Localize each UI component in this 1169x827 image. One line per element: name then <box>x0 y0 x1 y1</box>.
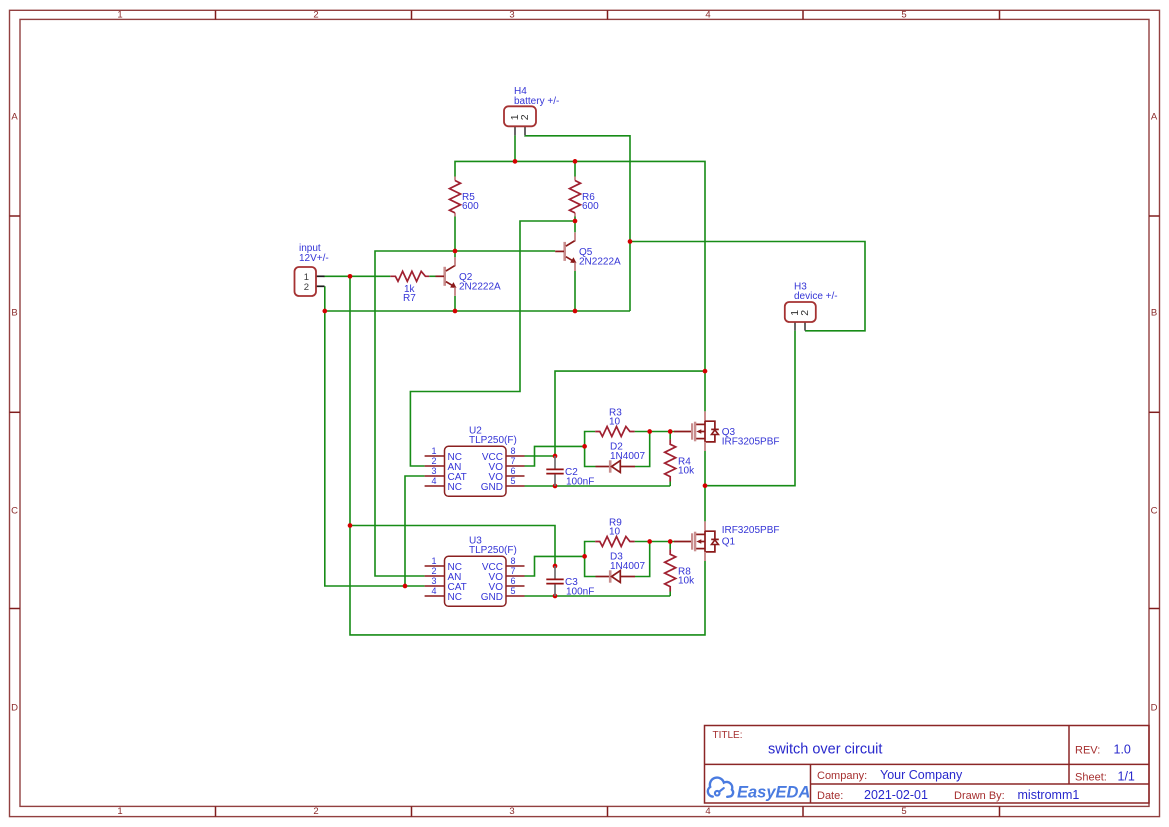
svg-text:GND: GND <box>481 592 503 603</box>
junction H4 pin1 / battery+ rail <box>513 159 518 164</box>
wire R8 top <box>669 542 671 550</box>
wire input pin1 to R7 <box>324 275 391 277</box>
svg-text:2N2222A: 2N2222A <box>459 282 501 293</box>
svg-text:8: 8 <box>510 446 515 456</box>
wire D2 right up to node <box>635 432 650 467</box>
resistor R7 1k <box>390 271 429 304</box>
svg-text:device +/-: device +/- <box>794 291 838 302</box>
svg-text:1/1: 1/1 <box>1118 769 1135 783</box>
wire U3 GND rail <box>525 595 671 597</box>
optocoupler U2 TLP250(F) <box>425 426 525 497</box>
transistor Q2 2N2222A <box>436 257 502 296</box>
junction input pin1 / R7 <box>348 274 353 279</box>
mosfet Q3 IRF3205PBF <box>674 411 780 451</box>
svg-text:GND: GND <box>481 482 503 493</box>
wire Q3 source <box>704 451 706 486</box>
junction U2 CAT / U3 CAT <box>403 584 408 589</box>
wire Q3 source node to H3 pin1 <box>705 331 795 486</box>
wire battery+ to U2 VCC <box>555 371 705 456</box>
svg-text:4: 4 <box>705 806 710 817</box>
svg-text:3: 3 <box>431 576 436 586</box>
junction R6 top / battery+ rail <box>573 159 578 164</box>
svg-text:7: 7 <box>510 566 515 576</box>
junction R3 right / D2 right node <box>647 429 652 434</box>
svg-text:TITLE:: TITLE: <box>713 730 743 741</box>
svg-text:1: 1 <box>431 446 436 456</box>
wire D3 right up to node <box>635 542 650 577</box>
capacitor C3 100nF <box>546 566 594 597</box>
svg-text:Company:: Company: <box>817 770 867 782</box>
wire R4 top <box>669 432 671 440</box>
svg-text:IRF3205PBF: IRF3205PBF <box>722 436 780 447</box>
svg-text:REV:: REV: <box>1075 745 1100 757</box>
wire input pin2 down <box>325 286 425 586</box>
junction U3 VCC / C3 top <box>553 564 558 569</box>
svg-text:R7: R7 <box>403 293 416 304</box>
junction U2 VCC / C2 top <box>553 454 558 459</box>
wire gnd rail y=311 <box>325 310 630 312</box>
svg-text:4: 4 <box>431 586 436 596</box>
svg-text:mistromm1: mistromm1 <box>1018 788 1080 802</box>
svg-text:2: 2 <box>431 456 436 466</box>
svg-text:2: 2 <box>799 310 811 316</box>
svg-text:12V+/-: 12V+/- <box>299 253 329 264</box>
connector input 12V+/- <box>295 243 329 296</box>
svg-text:2N2222A: 2N2222A <box>579 257 621 268</box>
svg-text:4: 4 <box>431 476 436 486</box>
svg-text:5: 5 <box>510 476 515 486</box>
svg-text:2: 2 <box>313 10 318 21</box>
junction Q2 collector / R5 bottom <box>453 249 458 254</box>
wire battery+ rail y=161 <box>455 161 705 411</box>
svg-text:Drawn By:: Drawn By: <box>954 790 1005 802</box>
wire Q5 collector node to U2 AN <box>410 221 575 466</box>
svg-text:Q1: Q1 <box>722 537 736 548</box>
svg-text:600: 600 <box>582 201 599 212</box>
junction U2 VO / R3-D2 left node <box>582 444 587 449</box>
junction U3 VO / R9-D3 left node <box>582 554 587 559</box>
junction Q3 source / Q1 drain / H3 pin1 <box>703 483 708 488</box>
wire R9 right to gate node <box>635 541 674 543</box>
svg-text:4: 4 <box>705 10 710 21</box>
wire R6 top <box>574 161 576 176</box>
junction battery+ / U2 VCC branch <box>703 369 708 374</box>
svg-text:2021-02-01: 2021-02-01 <box>864 788 928 802</box>
svg-text:600: 600 <box>462 201 479 212</box>
resistor R5 600 <box>450 177 480 217</box>
resistor R4 10k <box>665 439 695 481</box>
svg-text:1N4007: 1N4007 <box>610 561 645 572</box>
svg-text:1.0: 1.0 <box>1114 743 1131 757</box>
svg-text:3: 3 <box>509 806 514 817</box>
wire R6 bottom node <box>574 216 576 221</box>
wire R5 bottom to Q2 collector node <box>454 216 456 257</box>
svg-text:NC: NC <box>448 592 462 603</box>
svg-text:1N4007: 1N4007 <box>610 451 645 462</box>
connector H4 battery +/- <box>504 86 559 135</box>
svg-text:5: 5 <box>510 586 515 596</box>
wire U3 loop left node down to D3 <box>585 556 596 576</box>
junction Q2 emitter / gnd rail <box>453 309 458 314</box>
svg-text:2: 2 <box>304 282 309 293</box>
wire Q5 collector <box>574 221 576 232</box>
svg-text:2: 2 <box>519 114 531 120</box>
svg-text:8: 8 <box>510 556 515 566</box>
svg-text:TLP250(F): TLP250(F) <box>469 435 517 446</box>
resistor R8 10k <box>665 549 695 591</box>
resistor R3 10 <box>595 408 634 437</box>
junction input pin1 branch / U3 VCC <box>348 523 353 528</box>
wire U2 CAT to U3 CAT <box>405 476 425 586</box>
svg-text:1: 1 <box>117 806 122 817</box>
svg-text:D: D <box>11 703 18 714</box>
wire loop left node down to D2 <box>585 446 596 466</box>
junction R8 top / Q1 gate node <box>668 539 673 544</box>
junction Q5 emitter / gnd rail <box>573 309 578 314</box>
wire Q2 collector node to U3 AN <box>375 251 455 576</box>
svg-text:2: 2 <box>431 566 436 576</box>
wire R4 bottom <box>669 482 671 487</box>
junction R4 top / Q3 gate node <box>668 429 673 434</box>
resistor R6 600 <box>570 177 600 217</box>
EasyEDA logo <box>708 778 733 797</box>
svg-text:B: B <box>1151 308 1157 319</box>
svg-text:10: 10 <box>609 417 621 428</box>
svg-text:10k: 10k <box>678 576 695 587</box>
title block <box>705 726 1150 804</box>
wire U3 VO pin7 to loop <box>525 556 585 576</box>
wire Q2 collector node to Q5 base <box>455 250 555 252</box>
svg-text:C: C <box>1151 506 1158 517</box>
wire R7 to Q2 base <box>429 275 435 277</box>
junction H4 pin2 / H3 pin2 / gnd rail <box>628 239 633 244</box>
wire Q5 emitter to rail <box>574 271 576 311</box>
wire R8 bottom <box>669 592 671 597</box>
svg-text:6: 6 <box>510 466 515 476</box>
svg-text:3: 3 <box>509 10 514 21</box>
optocoupler U3 TLP250(F) <box>425 536 525 607</box>
svg-text:5: 5 <box>901 806 906 817</box>
svg-text:D: D <box>1151 703 1158 714</box>
svg-text:100nF: 100nF <box>566 476 594 487</box>
wire node down to gnd rail <box>629 242 631 312</box>
wire Q2 emitter to rail <box>454 296 456 311</box>
junction Q5 collector / R6 bottom <box>573 219 578 224</box>
wire H4 pin2 to node <box>525 136 630 242</box>
diode D3 1N4007 <box>596 551 646 582</box>
wire R3 right to gate node <box>635 431 674 433</box>
svg-text:10k: 10k <box>678 466 695 477</box>
svg-text:Your Company: Your Company <box>880 768 963 782</box>
junction R9 right / D3 right node <box>647 539 652 544</box>
transistor Q5 2N2222A <box>555 232 621 271</box>
mosfet Q1 IRF3205PBF <box>674 521 780 561</box>
svg-text:3: 3 <box>431 466 436 476</box>
svg-text:A: A <box>1151 112 1158 123</box>
svg-text:IRF3205PBF: IRF3205PBF <box>722 525 780 536</box>
svg-text:battery +/-: battery +/- <box>514 96 559 107</box>
svg-text:EasyEDA: EasyEDA <box>737 784 810 802</box>
svg-text:100nF: 100nF <box>566 586 594 597</box>
svg-text:1: 1 <box>117 10 122 21</box>
connector H3 device +/- <box>785 282 838 331</box>
svg-text:B: B <box>11 308 17 319</box>
svg-text:1: 1 <box>431 556 436 566</box>
svg-text:TLP250(F): TLP250(F) <box>469 545 517 556</box>
svg-text:10: 10 <box>609 527 621 538</box>
junction input pin2 / gnd rail <box>322 309 327 314</box>
svg-text:NC: NC <box>448 482 462 493</box>
wire H4 pin1 to rail <box>514 135 516 161</box>
wire U2 GND rail <box>525 485 671 487</box>
wire U2 VCC pin <box>525 455 556 457</box>
wire U2 VO pin7 to loop <box>525 446 585 466</box>
svg-text:C: C <box>11 506 18 517</box>
svg-text:6: 6 <box>510 576 515 586</box>
wire Q3 source node to Q1 drain <box>704 486 706 522</box>
svg-text:Date:: Date: <box>817 790 843 802</box>
svg-text:Sheet:: Sheet: <box>1075 771 1107 783</box>
wire input pin1 down <box>350 276 705 635</box>
resistor R9 10 <box>595 518 634 547</box>
svg-text:2: 2 <box>313 806 318 817</box>
junction C3 bottom / U3 GND <box>553 594 558 599</box>
wire node to H3 pin2 <box>630 242 865 331</box>
junction C2 bottom / U2 GND <box>553 484 558 489</box>
wire loop left node up to R3 <box>585 432 596 447</box>
svg-text:A: A <box>11 112 18 123</box>
wire U3 loop left node up to R9 <box>585 542 596 557</box>
capacitor C2 100nF <box>546 456 594 487</box>
diode D2 1N4007 <box>596 441 646 472</box>
wire to U3 VCC <box>350 526 555 567</box>
svg-text:switch over circuit: switch over circuit <box>768 742 882 758</box>
svg-text:7: 7 <box>510 456 515 466</box>
svg-text:5: 5 <box>901 10 906 21</box>
